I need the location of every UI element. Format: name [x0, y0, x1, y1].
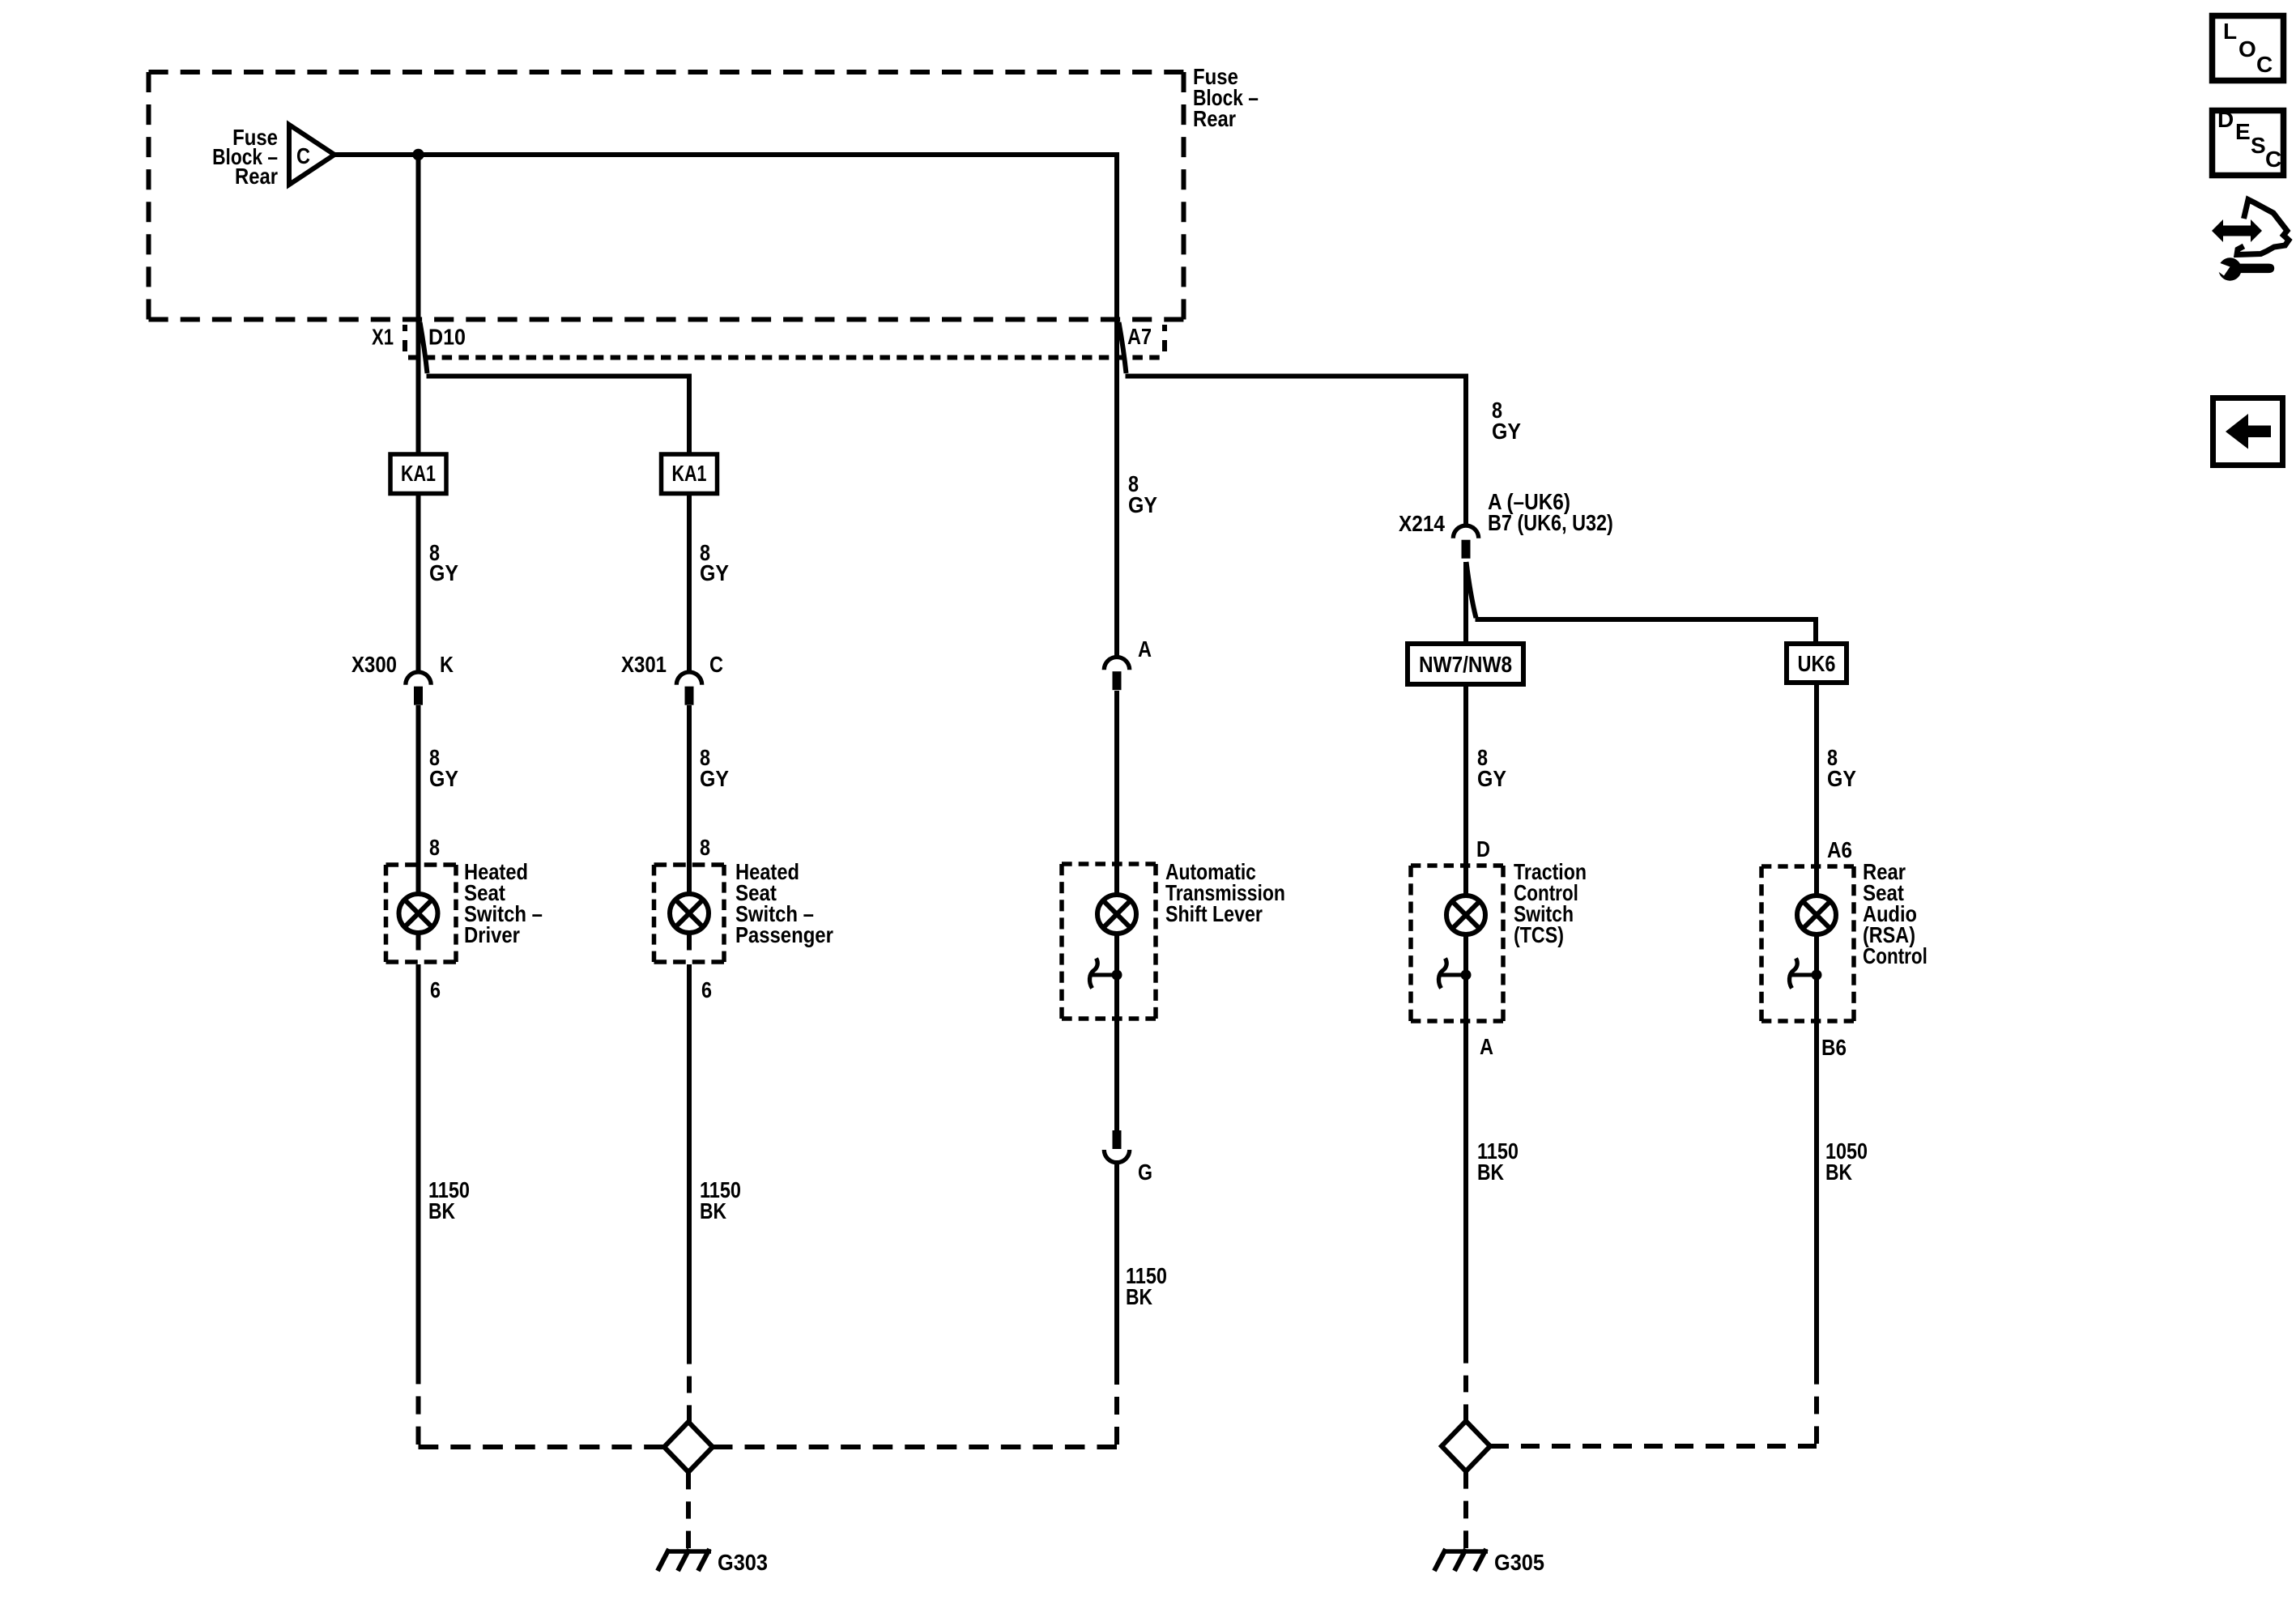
svg-text:GY: GY	[429, 560, 458, 586]
svg-text:GY: GY	[429, 766, 458, 792]
svg-text:GY: GY	[1492, 419, 1521, 445]
junction node on top feed wire	[412, 149, 424, 160]
svg-text:A: A	[1480, 1035, 1493, 1059]
svg-text:GY: GY	[700, 766, 729, 792]
label fuse block rear left	[212, 124, 278, 189]
option box NW7 NW8	[1408, 644, 1523, 684]
label X300	[351, 651, 397, 677]
wire: main drop from junction through X1 D10	[416, 155, 421, 454]
label X1	[372, 325, 394, 350]
svg-text:E: E	[2235, 119, 2251, 144]
svg-text:GY: GY	[700, 560, 729, 586]
wire: KA1 driver to X300	[416, 494, 421, 673]
icon diagnostic wrench	[2215, 257, 2274, 280]
svg-text:S: S	[2251, 133, 2266, 158]
wire: UK6 to RSA lamp	[1814, 683, 1819, 896]
label 1050 BK RSA	[1825, 1139, 1868, 1185]
automatic transmission shift lever dashed box	[1062, 864, 1156, 1019]
label K pin	[440, 653, 454, 677]
rear seat audio dashed box	[1761, 866, 1854, 1021]
heated seat switch driver dashed box	[386, 865, 457, 962]
svg-text:D10: D10	[428, 324, 466, 350]
label heated seat switch passenger	[735, 860, 833, 947]
svg-text:Rear: Rear	[235, 163, 278, 189]
label 8 GY driver upper	[429, 541, 458, 585]
label 8 GY TCS	[1477, 746, 1506, 791]
label 1150 BK shift lever	[1126, 1264, 1167, 1309]
svg-text:X1: X1	[372, 325, 394, 350]
label heated seat switch driver	[464, 860, 543, 947]
svg-text:G303: G303	[718, 1550, 768, 1575]
svg-text:D: D	[1476, 837, 1490, 862]
label C pin X301	[709, 653, 723, 677]
heated seat switch passenger dashed box	[654, 865, 725, 962]
wire: X300 to heated seat switch driver	[416, 705, 421, 895]
junction dot shift lever	[1112, 970, 1122, 981]
wire: horizontal branch to KA1 passenger	[427, 377, 690, 455]
svg-text:BK: BK	[700, 1199, 726, 1224]
wire: RSA lamp through junction down	[1814, 934, 1819, 1367]
connector separator dashes at A7	[1162, 325, 1167, 351]
svg-text:BK: BK	[1825, 1160, 1852, 1185]
svg-text:KA1: KA1	[672, 461, 707, 486]
label A pin shift lever connector	[1138, 637, 1152, 662]
label 8 GY RSA	[1827, 746, 1856, 791]
wire: driver lamp down to splice run	[416, 933, 421, 1366]
icon back arrow box	[2213, 398, 2283, 466]
label 8 GY passenger upper	[700, 541, 729, 585]
wire: TCS lamp through junction down	[1463, 934, 1468, 1347]
wire: dashed splice to ground G303	[686, 1472, 691, 1548]
junction dot RSA	[1812, 970, 1822, 981]
svg-text:B7 (UK6, U32): B7 (UK6, U32)	[1488, 511, 1613, 535]
fuse KA1 driver box	[390, 454, 446, 494]
svg-text:Passenger: Passenger	[735, 921, 833, 947]
fuse block output triangle C	[289, 125, 334, 185]
fuse KA1 passenger box	[662, 454, 718, 494]
label G pin shift lever	[1138, 1160, 1152, 1185]
svg-text:8: 8	[429, 836, 440, 860]
svg-text:G305: G305	[1494, 1550, 1544, 1575]
lamp heated seat switch passenger	[670, 894, 709, 933]
wire: top horizontal feed from triangle C and drop to A7	[334, 155, 1117, 657]
svg-text:A6: A6	[1827, 836, 1852, 862]
label automatic transmission shift lever	[1165, 860, 1285, 927]
label traction control switch TCS	[1514, 860, 1587, 948]
svg-text:C: C	[296, 144, 310, 168]
svg-text:O: O	[2238, 36, 2256, 62]
switch lever hook shift lever	[1090, 959, 1117, 989]
wire: dashed shift lever drop to splice bus	[713, 1367, 1117, 1447]
splice diamond S305	[1442, 1421, 1490, 1471]
svg-text:K: K	[440, 653, 454, 677]
wire: dashed splice to ground G305	[1463, 1471, 1468, 1548]
lamp shift lever	[1097, 895, 1136, 934]
svg-text:NW7/NW8: NW7/NW8	[1419, 651, 1512, 677]
svg-text:Rear: Rear	[1193, 105, 1236, 131]
svg-text:GY: GY	[1477, 766, 1506, 792]
svg-text:8: 8	[700, 836, 710, 860]
svg-text:D: D	[2217, 107, 2234, 132]
label G305	[1494, 1550, 1544, 1575]
connector G shift lever	[1104, 1130, 1129, 1163]
label 8 GY feed to X214	[1492, 398, 1521, 444]
label G303	[718, 1550, 768, 1575]
junction dot TCS	[1461, 970, 1472, 981]
label fuse block rear right	[1193, 63, 1259, 131]
lamp TCS	[1446, 896, 1485, 934]
svg-text:X214: X214	[1399, 510, 1445, 536]
svg-text:BK: BK	[428, 1199, 455, 1224]
label 8 GY driver lower	[429, 746, 458, 791]
connector X300	[406, 672, 431, 705]
traction control switch dashed box	[1411, 866, 1503, 1021]
svg-text:BK: BK	[1126, 1285, 1152, 1310]
label 8 GY shift lever	[1128, 472, 1157, 517]
lamp heated seat switch driver	[399, 894, 438, 933]
svg-text:C: C	[2265, 147, 2281, 172]
wire: X214 kink to UK6 branch	[1467, 562, 1476, 618]
svg-text:(TCS): (TCS)	[1514, 923, 1564, 947]
wire: dashed RSA drop to splice bus	[1490, 1367, 1817, 1446]
wire: branch takeoff jog at A7	[1119, 322, 1127, 373]
wire: NW7 NW8 to TCS lamp	[1463, 684, 1468, 896]
label A7	[1127, 325, 1152, 349]
svg-text:A7: A7	[1127, 325, 1152, 349]
svg-text:6: 6	[701, 978, 712, 1002]
label D10	[428, 324, 466, 350]
svg-text:GY: GY	[1128, 492, 1157, 518]
connector X1 dotted strip line	[408, 355, 1164, 360]
connector X214	[1453, 526, 1478, 559]
svg-text:C: C	[2256, 52, 2273, 77]
wire: horizontal branch A7 to X214 drop	[1126, 377, 1467, 526]
connector X301	[676, 672, 701, 705]
wire: branch takeoff jog at D10	[420, 322, 428, 373]
label X301	[621, 651, 667, 677]
svg-text:GY: GY	[1827, 766, 1856, 792]
wire: dashed passenger drop to splice	[687, 1347, 692, 1422]
wire: connector A to shift lever lamp	[1114, 691, 1119, 896]
wire: X214 down to NW7 NW8	[1463, 562, 1468, 644]
wire: connector G down	[1114, 1163, 1119, 1367]
ground G305	[1434, 1549, 1488, 1571]
svg-text:L: L	[2223, 19, 2237, 44]
label rear seat audio RSA control	[1863, 858, 1928, 968]
wire: passenger lamp down	[687, 933, 692, 1347]
svg-text:KA1: KA1	[401, 461, 436, 486]
svg-text:G: G	[1138, 1160, 1152, 1185]
icon diagnostic blob outline	[2237, 200, 2289, 255]
wire: lamp to junction dot shift lever	[1114, 933, 1119, 1130]
icon DESC box	[2213, 107, 2284, 176]
pin label A6 RSA	[1827, 836, 1852, 862]
svg-text:B6: B6	[1821, 1034, 1847, 1060]
splice diamond S303	[664, 1422, 713, 1472]
svg-text:Driver: Driver	[464, 921, 520, 947]
connector separator dashes at X1	[403, 325, 407, 351]
switch lever hook RSA	[1790, 959, 1817, 989]
wire: X301 to heated seat switch passenger	[687, 705, 692, 895]
wire: KA1 passenger to X301	[687, 494, 692, 673]
svg-text:BK: BK	[1477, 1160, 1504, 1185]
lamp RSA	[1797, 896, 1836, 934]
svg-text:Shift Lever: Shift Lever	[1165, 902, 1263, 926]
svg-text:C: C	[709, 653, 723, 677]
wire: horizontal to UK6	[1476, 619, 1817, 644]
wire: dashed TCS drop to splice	[1463, 1347, 1468, 1421]
svg-text:6: 6	[430, 978, 441, 1002]
svg-text:X300: X300	[351, 651, 397, 677]
pin label D TCS	[1476, 837, 1490, 862]
label C inside triangle	[296, 144, 310, 168]
svg-text:A: A	[1138, 637, 1152, 662]
svg-text:UK6: UK6	[1798, 652, 1836, 676]
label 1150 BK TCS	[1477, 1139, 1519, 1185]
ground G303	[658, 1549, 711, 1571]
label A B7 connector options	[1488, 488, 1613, 535]
switch lever hook TCS	[1439, 959, 1466, 989]
wire: dashed driver drop to ground bus	[419, 1366, 665, 1447]
svg-text:X301: X301	[621, 651, 667, 677]
pin label B6 RSA	[1821, 1034, 1847, 1060]
pin label A TCS	[1480, 1035, 1493, 1059]
icon diagnostic double arrow	[2212, 219, 2262, 242]
label 1150 BK passenger	[700, 1178, 741, 1223]
label X214	[1399, 510, 1445, 536]
option box UK6	[1787, 644, 1847, 683]
label 8 GY passenger lower	[700, 746, 729, 791]
pin label 8 driver lamp	[429, 836, 440, 860]
pin label 8 passenger lamp	[700, 836, 710, 860]
svg-text:Control: Control	[1863, 944, 1928, 969]
fuse block rear dashed boundary box	[149, 72, 1184, 320]
label 1150 BK driver	[428, 1178, 470, 1223]
connector A shift lever	[1104, 657, 1129, 691]
pin label 6 passenger lamp	[701, 978, 712, 1002]
pin label 6 driver lamp	[430, 978, 441, 1002]
icon LOC box	[2213, 16, 2284, 81]
